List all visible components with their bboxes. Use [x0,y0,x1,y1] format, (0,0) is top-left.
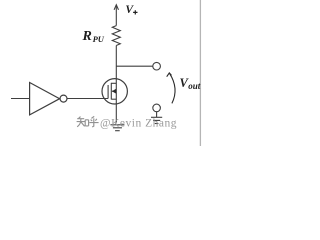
wire: drain rail from resistor down through MOSFET to ground [115,46,117,123]
svg-text:PU: PU [93,34,105,44]
watermark [77,116,99,127]
svg-text:@Kevin Zhang: @Kevin Zhang [100,117,177,129]
label V+ [125,4,137,16]
transistor Q1 body arrow [112,89,116,94]
supply V+ arrow [114,5,118,26]
label V_out [180,76,201,91]
node: reference terminal (bottom) [153,104,161,112]
ground (left, source of Q1) [110,125,124,131]
svg-text:out: out [188,81,201,91]
wire: branch to output terminal [116,65,153,67]
wire: inverter input [11,98,30,100]
svg-text:R: R [82,29,92,44]
V_out annotation arrow [167,73,175,104]
wire: inverter output to gate [67,98,108,100]
label R_PU [82,29,105,44]
inverter U1 [30,83,67,115]
resistor R_PU [112,26,120,46]
transistor Q1 (NMOS) [102,79,127,104]
node: output terminal (top) [153,62,161,70]
frame edge (right border) [199,0,201,146]
svg-text:V: V [125,4,134,16]
ground (right) [151,117,162,123]
wire [156,112,158,117]
